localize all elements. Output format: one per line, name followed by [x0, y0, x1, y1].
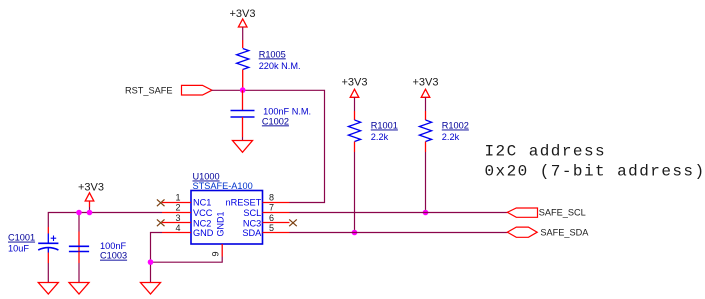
svg-text:100nF: 100nF	[100, 241, 126, 251]
pin 2 VCC	[162, 212, 191, 214]
power +3V3 (R1001)	[342, 76, 368, 97]
svg-text:STSAFE-A100: STSAFE-A100	[193, 181, 253, 191]
wire RST_SAFE to junction	[212, 89, 243, 91]
no-connect X pin 1	[157, 199, 165, 206]
IC U1000 STSAFE-A100	[157, 172, 297, 257]
svg-text:9: 9	[211, 251, 221, 256]
pin 3 NC2	[162, 222, 191, 224]
wire pin4 GND to ground	[151, 233, 163, 283]
svg-text:220k N.M.: 220k N.M.	[259, 61, 301, 71]
svg-text:+3V3: +3V3	[78, 181, 104, 193]
junction RST node	[240, 87, 246, 93]
no-connect X pin 3	[157, 219, 165, 226]
power +3V3 top (R1005 pull-up)	[230, 8, 256, 27]
svg-text:RST_SAFE: RST_SAFE	[125, 86, 172, 96]
wire +3V3 to R1005	[242, 27, 244, 40]
svg-text:3: 3	[175, 213, 180, 223]
svg-text:C1001: C1001	[8, 233, 35, 243]
capacitor C1003	[69, 213, 127, 283]
svg-text:2: 2	[175, 203, 180, 213]
svg-text:GND1: GND1	[215, 211, 225, 236]
pin 8 nRESET	[263, 202, 290, 204]
svg-text:+3V3: +3V3	[342, 76, 368, 88]
svg-text:SAFE_SDA: SAFE_SDA	[540, 228, 589, 238]
svg-text:100nF N.M.: 100nF N.M.	[263, 107, 311, 117]
ground (C1001)	[38, 283, 58, 295]
wire R1001 to SDA	[354, 152, 356, 233]
svg-text:nRESET: nRESET	[226, 198, 262, 208]
junction C1003/VCC	[76, 210, 82, 216]
svg-text:5: 5	[269, 223, 274, 233]
svg-text:R1001: R1001	[371, 121, 398, 131]
svg-text:10uF: 10uF	[8, 244, 29, 254]
pin 4 GND	[162, 232, 191, 234]
svg-text:SCL: SCL	[243, 208, 261, 218]
wire +3V3 left drop	[89, 207, 91, 213]
ground (C1003)	[69, 283, 89, 295]
svg-text:NC1: NC1	[193, 198, 211, 208]
port RST_SAFE	[125, 85, 212, 95]
svg-text:C1002: C1002	[262, 116, 289, 126]
no-connect X pin 6	[289, 219, 297, 226]
pin 9 GND1	[221, 244, 223, 257]
svg-text:SAFE_SCL: SAFE_SCL	[539, 208, 586, 218]
resistor R1002	[419, 111, 468, 152]
svg-text:6: 6	[269, 213, 274, 223]
ground (U1000)	[141, 283, 161, 295]
svg-text:U1000: U1000	[193, 172, 220, 182]
note I2C address	[485, 143, 705, 181]
resistor R1005	[237, 40, 301, 90]
pin 7 SCL	[263, 212, 290, 214]
port SAFE_SCL	[507, 208, 585, 218]
wire +3V3 to R1002	[425, 97, 427, 111]
svg-text:+3V3: +3V3	[413, 76, 439, 88]
junction ground net	[148, 259, 154, 265]
svg-text:1: 1	[175, 193, 180, 203]
svg-text:7: 7	[269, 203, 274, 213]
wire +3V3 to R1001	[354, 97, 356, 111]
capacitor C1002	[231, 90, 312, 140]
pin 1 NC1	[162, 202, 191, 204]
wire pin9 GND1 to ground	[151, 257, 223, 263]
svg-text:GND: GND	[193, 228, 214, 238]
capacitor C1001	[8, 227, 58, 283]
svg-text:4: 4	[175, 223, 180, 233]
power +3V3 (R1002)	[413, 76, 439, 97]
wire junction to pin 8 (nRESET)	[243, 90, 325, 202]
svg-text:R1005: R1005	[259, 49, 286, 59]
svg-text:NC3: NC3	[243, 219, 261, 229]
svg-text:VCC: VCC	[193, 208, 213, 218]
wire SDA net	[290, 232, 508, 234]
svg-text:2.2k: 2.2k	[371, 132, 389, 142]
ground (C1002)	[233, 141, 253, 153]
wire VCC rail left	[48, 213, 162, 228]
svg-text:2.2k: 2.2k	[442, 132, 460, 142]
svg-text:8: 8	[269, 193, 274, 203]
svg-text:C1003: C1003	[100, 251, 127, 261]
junction +3V3/VCC	[87, 210, 93, 216]
svg-text:0x20 (7-bit address): 0x20 (7-bit address)	[485, 162, 705, 180]
resistor R1001	[348, 111, 397, 152]
svg-text:SDA: SDA	[242, 228, 262, 238]
port SAFE_SDA	[507, 227, 589, 238]
power +3V3 left	[78, 181, 104, 207]
junction R1002/SCL	[423, 210, 429, 216]
junction R1001/SDA	[352, 230, 358, 236]
wire R1002 to SCL	[425, 152, 427, 213]
pin 5 SDA	[263, 232, 290, 234]
svg-text:R1002: R1002	[442, 121, 469, 131]
svg-text:NC2: NC2	[193, 219, 211, 229]
svg-text:I2C address: I2C address	[485, 143, 607, 161]
pin 6 NC3	[263, 222, 290, 224]
wire SCL net	[290, 212, 508, 214]
